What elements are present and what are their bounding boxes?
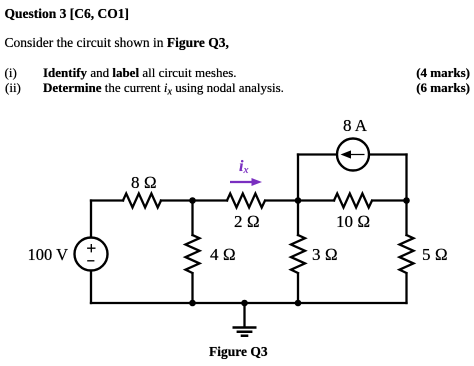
- wire 8-ohm to node B (through node A): [161, 199, 227, 201]
- ground stub wire: [243, 303, 245, 327]
- current source IS1 8 A circle: [337, 139, 369, 171]
- resistor R2 2 ohm: [227, 194, 265, 208]
- caption Figure Q3: [209, 345, 268, 359]
- junction node B dot (top of 3 ohm): [295, 197, 302, 204]
- wire left vertical below source: [90, 271, 92, 304]
- marks (4 marks): [416, 66, 470, 79]
- wire loop right vertical (down to node C): [405, 155, 407, 201]
- wire 4-ohm branch lower: [191, 274, 193, 303]
- label 4 ohm: [210, 246, 236, 263]
- voltage source minus sign: [87, 260, 94, 262]
- wire 5-ohm branch upper: [405, 201, 407, 236]
- item (ii): [5, 81, 21, 94]
- junction node C dot (top of 5 ohm): [403, 197, 410, 204]
- resistor R6 5 ohm: [400, 235, 414, 273]
- wire 5-ohm branch lower: [405, 274, 407, 303]
- resistor R4 4 ohm: [186, 235, 200, 273]
- label 100 V: [28, 247, 69, 264]
- label i_x (purple): [239, 159, 248, 175]
- voltage source VS1 100 V circle: [75, 238, 108, 271]
- resistor R1 8 ohm: [123, 194, 161, 208]
- junction node A dot (top of 4 ohm): [189, 197, 196, 204]
- body text line: [5, 36, 229, 50]
- current arrow i_x (purple): [230, 181, 253, 183]
- wire loop top left (to current source): [298, 153, 337, 155]
- wire top rail left segment (source top corner to 8-ohm): [91, 199, 123, 201]
- label 8 A: [343, 117, 367, 134]
- wire bottom rail: [91, 302, 407, 304]
- wire 3-ohm branch lower: [297, 274, 299, 303]
- wire loop left vertical (node B up): [297, 155, 299, 201]
- label 2 ohm: [234, 213, 260, 230]
- current source arrow (pointing left): [347, 154, 365, 156]
- title: Question 3 [C6, CO1]: [5, 7, 130, 21]
- label 8 ohm: [131, 174, 157, 191]
- wire loop top right (current source to right): [369, 153, 407, 155]
- wire 2-ohm to 10-ohm: [266, 199, 334, 201]
- resistor R3 10 ohm: [334, 194, 372, 208]
- label 5 ohm: [422, 246, 448, 263]
- wire 10-ohm to node C: [373, 199, 407, 201]
- wire left vertical above source: [90, 201, 92, 238]
- label 10 ohm: [336, 213, 370, 230]
- wire 3-ohm branch upper: [297, 201, 299, 236]
- resistor R5 3 ohm: [291, 235, 305, 273]
- marks (6 marks): [416, 81, 470, 94]
- wire 4-ohm branch upper: [191, 201, 193, 236]
- junction dot bottom of 4 ohm: [189, 300, 196, 307]
- ground symbol bars: [233, 328, 257, 336]
- junction dot bottom of 3 ohm: [295, 300, 302, 307]
- label 3 ohm: [312, 246, 338, 263]
- voltage source plus sign: [87, 244, 95, 252]
- item (i): [5, 66, 17, 79]
- junction dot ground node: [241, 300, 248, 307]
